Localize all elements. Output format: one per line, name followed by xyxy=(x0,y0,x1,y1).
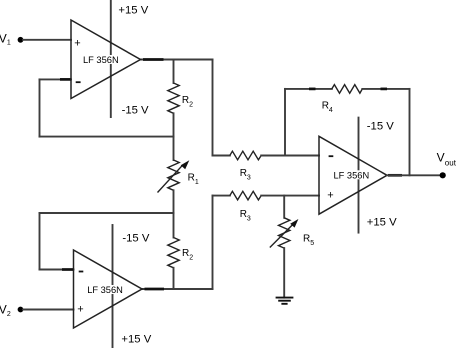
svg-text:2: 2 xyxy=(7,311,11,318)
svg-text:out: out xyxy=(445,158,457,167)
R4 pin stub right xyxy=(381,88,388,91)
wire U2 feedback vertical xyxy=(39,213,41,270)
svg-text:+15 V: +15 V xyxy=(118,5,148,17)
ground xyxy=(276,298,294,304)
wire R4 left horizontal lead xyxy=(285,88,332,90)
wire right column top (U1 out down to R3a) xyxy=(212,60,214,156)
op-amp U1 xyxy=(71,20,141,99)
wire R3a to U3 - input xyxy=(261,155,319,157)
wire R4 left leg xyxy=(284,89,286,156)
svg-text:R5: R5 xyxy=(303,233,314,247)
wire U2 - input xyxy=(40,269,74,271)
wire R2a to node A xyxy=(173,113,175,160)
wire U1 - input xyxy=(40,78,72,80)
wire right column bottom (U2 out up to R3b) xyxy=(212,196,214,289)
wire central column: U1 out to R2a xyxy=(173,60,175,84)
svg-text:+: + xyxy=(327,189,333,201)
svg-text:+15 V: +15 V xyxy=(367,217,397,229)
U3 output pin stub xyxy=(388,174,402,177)
resistor R3 (top) xyxy=(230,151,261,160)
resistor R1 (variable) xyxy=(168,160,179,190)
wire R5 top lead xyxy=(283,196,285,218)
wire R3b to U3 + input xyxy=(261,195,319,197)
wire R2b to U2 output xyxy=(173,268,175,289)
node V1 terminal dot xyxy=(18,37,24,43)
svg-text:+: + xyxy=(74,38,80,50)
R1 wiper arrow xyxy=(158,166,183,193)
resistor R2 (bottom) xyxy=(168,238,179,268)
svg-text:V: V xyxy=(0,31,7,45)
svg-text:LF 356N: LF 356N xyxy=(87,285,123,295)
svg-text:R4: R4 xyxy=(322,101,333,115)
svg-text:R2: R2 xyxy=(182,95,193,109)
resistor R2 (top) xyxy=(168,83,179,113)
svg-text:-15 V: -15 V xyxy=(367,121,394,133)
wire R4 right horizontal lead xyxy=(362,88,409,90)
U1 - input pin stub xyxy=(60,78,71,81)
svg-text:LF 356N: LF 356N xyxy=(83,55,119,65)
svg-text:R3: R3 xyxy=(240,168,251,182)
U1 output pin stub xyxy=(143,58,164,61)
svg-text:+: + xyxy=(77,303,83,315)
svg-text:-15 V: -15 V xyxy=(122,233,149,245)
svg-text:R1: R1 xyxy=(188,172,199,186)
wire R3a left lead xyxy=(213,155,230,157)
op-amp U3 xyxy=(319,136,387,214)
svg-text:1: 1 xyxy=(7,40,11,47)
U2 output pin stub xyxy=(145,288,165,291)
wire U2 feedback horizontal to node B xyxy=(40,212,174,214)
svg-text:V: V xyxy=(0,303,7,317)
R4 pin stub left xyxy=(309,88,316,91)
wire U1 output horizontal xyxy=(141,59,213,61)
node V2 terminal dot xyxy=(18,307,24,313)
power line -15V/+15V of U3 xyxy=(358,118,360,233)
wire U1 feedback vertical xyxy=(39,79,41,136)
svg-text:-15 V: -15 V xyxy=(122,105,149,117)
wire V1 to U1 + input xyxy=(23,39,71,41)
wire U3 output to Vout xyxy=(387,174,443,176)
op-amp U2 xyxy=(74,250,143,328)
resistor R5 (variable) xyxy=(279,218,290,248)
U2 - input pin stub xyxy=(62,268,73,271)
wire U1 feedback horizontal to node A xyxy=(40,136,174,138)
wire U2 output horizontal xyxy=(142,288,213,290)
svg-text:V: V xyxy=(437,151,445,165)
resistor R4 xyxy=(332,85,363,94)
svg-text:R3: R3 xyxy=(240,209,251,223)
node Vout terminal dot xyxy=(440,172,446,178)
svg-text:R2: R2 xyxy=(182,248,193,262)
svg-text:LF 356N: LF 356N xyxy=(334,170,370,180)
wire R5 bottom lead to ground xyxy=(283,248,285,298)
power line -15V/+15V of U2 xyxy=(112,225,114,348)
R5 wiper arrow xyxy=(270,225,293,248)
wire V2 to U2 + input xyxy=(23,309,74,311)
resistor R3 (bottom) xyxy=(230,191,261,200)
wire R4 right leg to output xyxy=(409,89,411,175)
power line +15V/-15V of U1 xyxy=(110,1,112,117)
svg-text:+15 V: +15 V xyxy=(121,334,151,346)
wire R1 to node B xyxy=(173,190,175,237)
wire R3b left lead xyxy=(213,195,230,197)
